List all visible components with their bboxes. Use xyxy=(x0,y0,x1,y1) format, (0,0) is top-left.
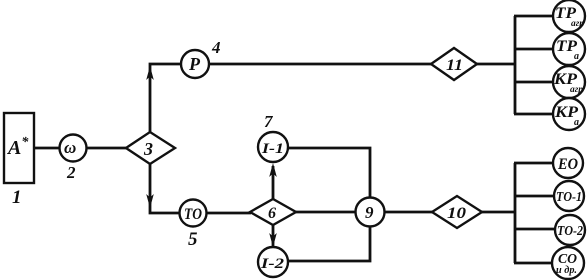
svg-text:2: 2 xyxy=(66,163,76,182)
svg-text:а: а xyxy=(574,117,579,128)
diamond 10 xyxy=(432,196,482,228)
wire diamond 6 to circle 9 xyxy=(295,211,356,214)
svg-text:а: а xyxy=(574,51,579,62)
circle TR a xyxy=(553,33,585,65)
stub to EO xyxy=(514,162,553,165)
bottom bus vertical xyxy=(514,163,517,263)
stub to KR.a xyxy=(514,113,553,116)
arrowhead up into I-1 xyxy=(269,163,277,177)
wire diamond 10 to bottom bus xyxy=(481,211,516,214)
svg-text:и др.: и др. xyxy=(556,265,577,276)
wire P to diamond 11 xyxy=(209,63,432,66)
circle I-2 xyxy=(258,247,288,277)
svg-text:Р: Р xyxy=(188,54,201,74)
svg-text:I-1: I-1 xyxy=(261,141,284,157)
svg-text:7: 7 xyxy=(264,112,274,131)
wire diamond 6 down to I-2 xyxy=(272,224,275,246)
wire I-1 right and down to circle 9 xyxy=(288,148,370,198)
wire diamond 3 down to corner and right into TO xyxy=(150,163,180,213)
svg-text:агр: агр xyxy=(571,18,585,28)
wire I-2 right and up to circle 9 xyxy=(288,227,370,261)
arrowhead up into P corner xyxy=(146,66,154,80)
svg-text:5: 5 xyxy=(188,229,198,250)
circle 7 I-1 xyxy=(258,132,288,162)
circle SO i dr xyxy=(552,247,584,279)
block 1 rectangle A* xyxy=(4,113,34,183)
diamond 6 xyxy=(250,199,296,225)
stub to TO-1 xyxy=(514,195,553,198)
diamond 11 xyxy=(431,48,477,80)
stub to TO-2 xyxy=(514,228,554,231)
arrowhead down into TO corner xyxy=(146,194,154,208)
stub to TR.agr xyxy=(514,15,553,18)
stub to KR.agr xyxy=(514,81,553,84)
wire diamond 11 to top bus xyxy=(476,63,516,66)
circle KR agr xyxy=(553,66,585,98)
circle 2 omega xyxy=(60,135,87,162)
wire diamond 6 up to I-1 xyxy=(272,166,275,200)
top bus vertical xyxy=(514,16,517,114)
wire circle 9 to diamond 10 xyxy=(384,211,433,214)
stub to SO xyxy=(514,262,553,265)
svg-text:1: 1 xyxy=(12,187,22,208)
svg-text:ТО-2: ТО-2 xyxy=(557,224,583,239)
stub to TR.a xyxy=(514,48,553,51)
wire omega to diamond 3 xyxy=(86,147,127,150)
circle TO-2 xyxy=(555,215,585,245)
svg-text:ЕО: ЕО xyxy=(557,156,578,173)
svg-text:3: 3 xyxy=(143,139,153,159)
svg-text:9: 9 xyxy=(365,203,374,222)
circle 5 TO xyxy=(180,200,207,227)
svg-text:ТО-1: ТО-1 xyxy=(556,190,582,205)
wire TO to diamond 6 xyxy=(206,212,251,215)
svg-text:ТО: ТО xyxy=(184,206,202,223)
circle TR agr xyxy=(553,0,585,32)
svg-text:агр: агр xyxy=(570,84,584,94)
arrowhead down into I-2 xyxy=(269,233,277,247)
circle 4 P xyxy=(181,50,209,78)
circle EO xyxy=(553,148,583,178)
wire diamond 3 up to corner and right into P xyxy=(150,64,182,133)
circle KR a xyxy=(553,98,585,130)
wire rect1 to omega xyxy=(33,147,60,150)
svg-text:11: 11 xyxy=(446,57,463,74)
diamond 3 xyxy=(126,132,175,164)
svg-text:4: 4 xyxy=(211,38,221,57)
circle TO-1 xyxy=(554,181,584,211)
svg-text:10: 10 xyxy=(447,205,466,222)
svg-text:I-2: I-2 xyxy=(260,256,285,272)
svg-text:6: 6 xyxy=(268,205,276,222)
circle 9 xyxy=(356,198,385,227)
svg-text:ω: ω xyxy=(64,138,76,157)
